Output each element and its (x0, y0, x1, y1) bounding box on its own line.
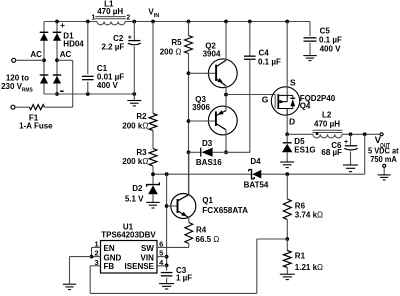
svg-text:D4: D4 (250, 157, 261, 166)
svg-text:R5: R5 (171, 38, 182, 47)
svg-text:ES1G: ES1G (294, 145, 315, 154)
svg-text:IN: IN (154, 13, 160, 19)
svg-text:2.2 µF: 2.2 µF (101, 43, 124, 52)
svg-text:1.21 kΩ: 1.21 kΩ (295, 263, 323, 272)
svg-text:3: 3 (95, 258, 99, 267)
svg-text:FCX658ATA: FCX658ATA (202, 206, 248, 215)
svg-text:750 mA: 750 mA (370, 155, 397, 164)
svg-text:0.1 µF: 0.1 µF (258, 58, 281, 67)
svg-text:R1: R1 (295, 251, 306, 260)
svg-text:D3: D3 (202, 139, 213, 148)
svg-text:200 kΩ: 200 kΩ (122, 121, 148, 130)
svg-text:470 µH: 470 µH (314, 119, 340, 128)
svg-text:R4: R4 (196, 226, 207, 235)
svg-text:AC: AC (60, 50, 72, 59)
svg-text:1: 1 (91, 14, 95, 21)
svg-text:R2: R2 (136, 112, 147, 121)
svg-text:R6: R6 (295, 201, 306, 210)
svg-text:5: 5 (159, 249, 163, 258)
svg-text:+: + (344, 139, 348, 146)
svg-text:400 V: 400 V (97, 81, 119, 90)
svg-text:D: D (289, 117, 295, 127)
svg-text:200 kΩ: 200 kΩ (122, 157, 148, 166)
svg-text:400 V: 400 V (320, 44, 342, 53)
svg-text:G: G (262, 95, 269, 105)
svg-text:L2: L2 (322, 111, 332, 120)
svg-text:1-A Fuse: 1-A Fuse (19, 121, 53, 130)
svg-text:68 µF: 68 µF (321, 148, 342, 157)
svg-text:2: 2 (95, 249, 99, 258)
svg-text:ISENSE: ISENSE (125, 262, 155, 271)
svg-text:S: S (290, 78, 296, 88)
svg-text:1 µF: 1 µF (176, 274, 192, 283)
svg-text:Q1: Q1 (202, 196, 213, 205)
svg-text:R3: R3 (136, 148, 147, 157)
svg-text:0.1 µF: 0.1 µF (319, 36, 342, 45)
svg-text:230 V: 230 V (1, 82, 23, 91)
svg-text:66.5 Ω: 66.5 Ω (196, 235, 220, 244)
svg-text:Q4: Q4 (300, 101, 311, 110)
svg-text:SW: SW (141, 244, 154, 253)
svg-text:C4: C4 (259, 49, 270, 58)
svg-text:EN: EN (104, 244, 115, 253)
svg-text:2: 2 (126, 14, 130, 21)
svg-text:1: 1 (95, 239, 99, 248)
svg-text:FB: FB (104, 262, 115, 271)
svg-text:D2: D2 (132, 184, 143, 193)
svg-text:+: + (60, 20, 65, 30)
svg-text:5 VDC at: 5 VDC at (368, 146, 399, 155)
svg-text:6: 6 (159, 239, 163, 248)
svg-text:5.1 V: 5.1 V (125, 194, 144, 203)
svg-text:RMS: RMS (22, 87, 33, 93)
svg-text:C5: C5 (320, 27, 331, 36)
svg-text:3906: 3906 (192, 103, 210, 112)
svg-text:BAT54: BAT54 (244, 181, 269, 190)
svg-text:HD04: HD04 (63, 40, 84, 49)
svg-text:TPS64203DBV: TPS64203DBV (101, 231, 156, 240)
svg-text:BAS16: BAS16 (196, 158, 222, 167)
svg-text:AC: AC (30, 50, 42, 59)
svg-text:200 Ω: 200 Ω (160, 48, 182, 57)
svg-text:3904: 3904 (203, 49, 221, 58)
svg-text:3.74 kΩ: 3.74 kΩ (295, 211, 323, 220)
svg-text:+: + (128, 35, 132, 42)
svg-text:470 µH: 470 µH (97, 7, 123, 16)
